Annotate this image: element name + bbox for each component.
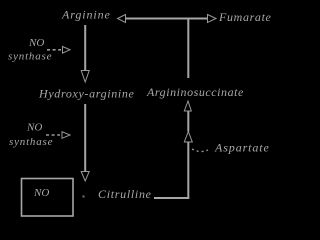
- svg-text:synthase: synthase: [9, 136, 53, 148]
- dashed arrow NO synthase upper: [47, 49, 61, 51]
- wire right vertical corner up to aspartate junction: [187, 142, 189, 198]
- svg-text:Citrulline: Citrulline: [98, 187, 152, 201]
- box NO: [22, 179, 74, 217]
- wire arginosuccinate-to-arginine horizontal: [126, 18, 207, 20]
- svg-text:Fumarate: Fumarate: [218, 10, 272, 24]
- arrowhead to Fumarate (open, right): [208, 15, 217, 23]
- svg-text:NO: NO: [26, 122, 42, 134]
- svg-text:Hydroxy-arginine: Hydroxy-arginine: [38, 87, 135, 101]
- wire Citrulline bottom horizontal to corner: [154, 197, 189, 199]
- dashed curve from Aspartate to right line: [192, 149, 208, 152]
- svg-text:Aspartate: Aspartate: [214, 141, 270, 155]
- wire right vertical between arrowheads: [187, 111, 189, 132]
- svg-text:Arginine: Arginine: [61, 7, 111, 21]
- arrowhead up (open) into Arginosuccinate: [184, 101, 191, 111]
- wire Hydroxy-arginine down to products: [84, 104, 86, 172]
- svg-text:NO: NO: [28, 37, 44, 49]
- arrowhead to Arginine (open, left): [118, 15, 126, 23]
- svg-text:NO: NO: [33, 187, 49, 199]
- dashed arrow NO synthase lower: [46, 134, 60, 136]
- svg-text:synthase: synthase: [8, 51, 52, 63]
- wire Arginine down to Hydroxy-arginine: [84, 25, 86, 71]
- arrowhead down (open) at products: [81, 172, 89, 182]
- speck between arrow and citrulline: [83, 196, 85, 198]
- svg-text:Argininosuccinate: Argininosuccinate: [146, 85, 244, 99]
- arrowhead down (open) at Hydroxy-arginine: [81, 71, 89, 83]
- wire vertical from top junction down to Arginosuccinate: [187, 20, 189, 79]
- arrowhead up (open) middle of right line: [184, 132, 192, 143]
